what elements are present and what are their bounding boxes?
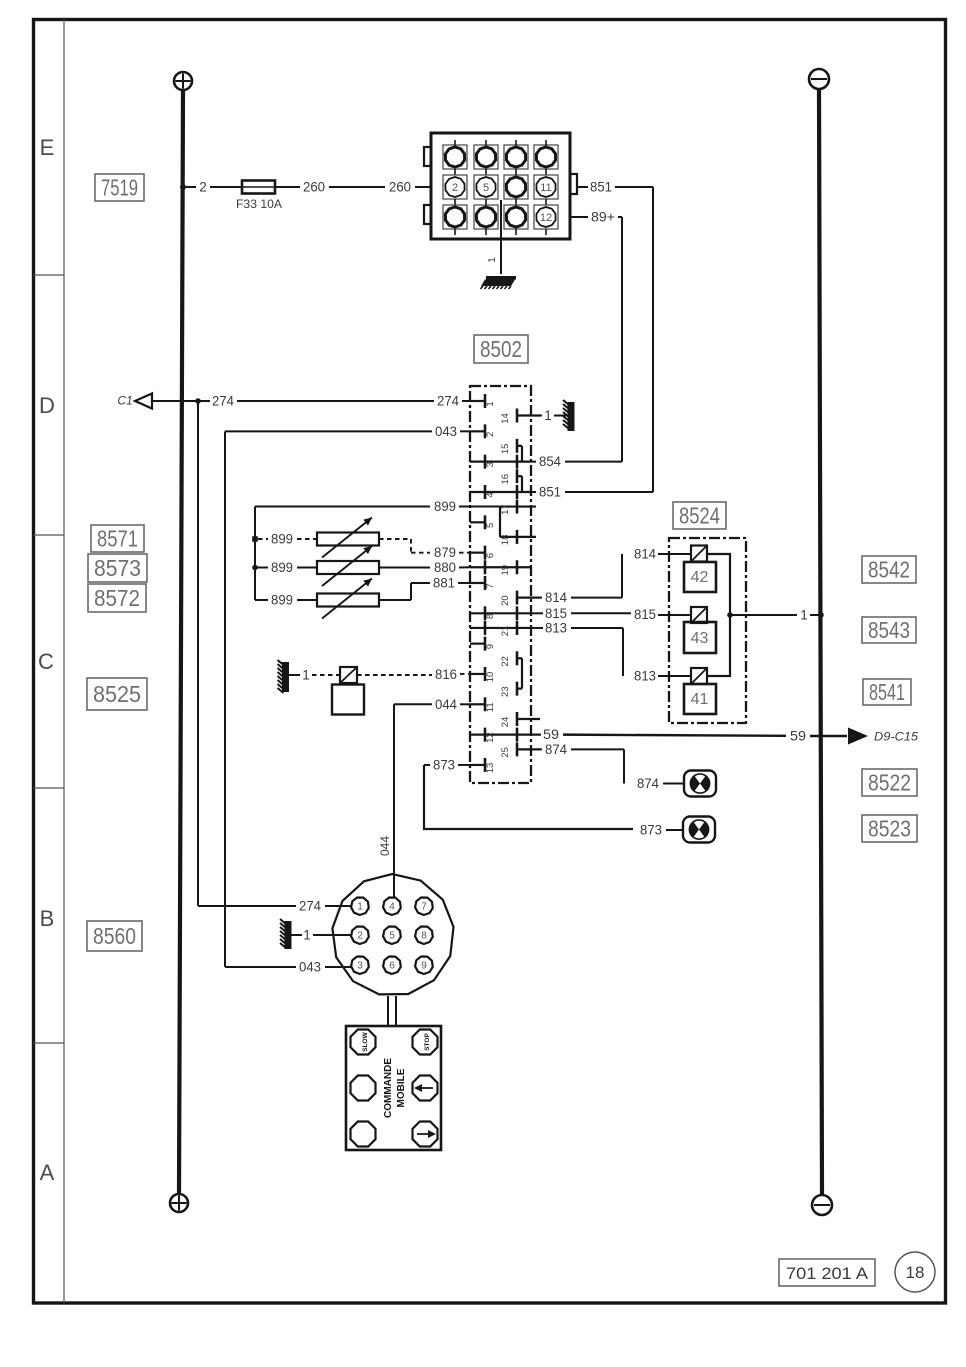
8502 pin 24	[500, 712, 540, 727]
svg-text:18: 18	[906, 1263, 925, 1282]
8502 pin 18	[500, 530, 536, 545]
round connector pin 1	[351, 898, 369, 916]
component box 8573	[88, 554, 147, 582]
svg-text:260: 260	[389, 180, 411, 195]
solenoid body 8525	[332, 685, 364, 715]
connector cavity r3c1	[443, 205, 467, 235]
svg-text:22: 22	[500, 656, 511, 667]
wire 814 into relay 42	[658, 553, 691, 555]
svg-text:E: E	[40, 135, 55, 160]
8502 pin 1	[470, 394, 496, 408]
svg-text:6: 6	[389, 961, 395, 972]
8502 pin 13	[470, 758, 496, 773]
svg-text:8560: 8560	[93, 923, 136, 949]
wire 274 vertical branch down	[197, 401, 199, 906]
round connector body	[332, 874, 453, 994]
wire 816 dashed into pin10	[460, 673, 470, 675]
svg-text:899: 899	[271, 532, 293, 547]
component box 8572	[88, 584, 146, 612]
8502 pin 9	[470, 637, 496, 651]
wire 043 into pin2	[460, 430, 470, 432]
wire 043 final	[325, 966, 351, 968]
svg-text:880: 880	[434, 560, 456, 575]
svg-text:D: D	[39, 393, 55, 418]
svg-text:881: 881	[433, 575, 455, 590]
wire 043 corner	[225, 430, 432, 432]
wire 873 from pin13	[424, 764, 430, 766]
relay 41 coil	[691, 668, 707, 684]
svg-text:4: 4	[389, 902, 395, 913]
round connector pin 4	[383, 898, 401, 916]
8502 pin 5	[470, 515, 496, 529]
relay common junction	[727, 612, 733, 618]
8502 pin 11	[470, 697, 496, 712]
svg-text:1: 1	[485, 401, 496, 406]
svg-text:879: 879	[434, 545, 456, 560]
wire 881 into pin7	[458, 582, 470, 584]
svg-text:3: 3	[485, 462, 496, 467]
wire 814 out pin20	[540, 597, 542, 599]
relay 42 coil	[691, 546, 707, 562]
svg-text:1: 1	[544, 408, 552, 423]
svg-text:1: 1	[303, 928, 311, 943]
svg-text:59: 59	[543, 727, 559, 742]
wire 1 to ground line	[730, 614, 797, 616]
wire 854 to corner	[565, 461, 622, 463]
svg-text:15: 15	[500, 444, 511, 455]
8502 pin 16	[500, 469, 522, 484]
wire 851 to corner	[615, 186, 653, 188]
junction 899 bus b	[252, 536, 258, 542]
svg-text:8523: 8523	[868, 816, 911, 842]
svg-text:23: 23	[500, 686, 511, 697]
svg-text:41: 41	[691, 691, 709, 708]
potentiometer 8572	[317, 594, 379, 607]
8502 pin 23	[500, 682, 522, 697]
wire 899 into pin17	[459, 506, 500, 508]
round connector pin 2	[351, 927, 369, 945]
wire 274 into pin1	[462, 400, 470, 402]
control button mid-left	[351, 1076, 376, 1101]
8502 pin 20	[500, 591, 540, 606]
connector arrow C1	[135, 394, 152, 409]
svg-text:STOP: STOP	[424, 1033, 431, 1051]
ground symbol 8525	[278, 660, 290, 693]
svg-text:2: 2	[485, 432, 496, 437]
svg-text:8542: 8542	[868, 557, 910, 583]
wire 851 vertical drop	[652, 187, 654, 492]
svg-text:851: 851	[590, 180, 612, 195]
component box 8523	[862, 815, 917, 842]
svg-text:6: 6	[485, 553, 496, 558]
connector 8502 outline dash-dot	[470, 386, 531, 783]
round connector pin 5	[383, 927, 401, 945]
svg-text:C1: C1	[117, 394, 132, 408]
junction 274 branch	[195, 398, 201, 404]
svg-text:11: 11	[485, 702, 496, 712]
ground - terminal bottom	[812, 1195, 832, 1215]
svg-text:815: 815	[545, 606, 567, 621]
wire 813 out pin21	[531, 627, 543, 629]
wire to fuse	[210, 186, 242, 188]
connector cavity r1c2	[474, 140, 498, 175]
svg-text:813: 813	[634, 669, 656, 684]
svg-text:B: B	[40, 906, 55, 931]
wire 89+ corner	[618, 216, 622, 218]
8502 pin 4	[470, 485, 531, 499]
wire 899 d segment	[255, 599, 268, 601]
wire 59 out pin12	[531, 734, 541, 736]
round connector pin 7	[415, 898, 433, 916]
svg-text:24: 24	[500, 717, 511, 728]
svg-text:874: 874	[637, 776, 659, 791]
svg-text:044: 044	[378, 836, 392, 856]
control button top-right	[413, 1030, 438, 1055]
svg-text:854: 854	[539, 454, 561, 469]
wire 274 into round pin1	[198, 905, 296, 907]
component box 8522	[862, 769, 917, 796]
wire 880 into pin19 line	[459, 566, 470, 568]
ground stub pin2	[291, 934, 302, 936]
wire 873 down	[424, 765, 633, 829]
svg-text:19: 19	[500, 565, 511, 576]
control box body	[346, 1026, 441, 1150]
svg-text:8525: 8525	[93, 681, 141, 707]
svg-text:8: 8	[421, 931, 427, 942]
potentiometer 8573	[317, 561, 379, 574]
round connector pin 9	[415, 957, 433, 975]
wire 854 out of pin3	[531, 461, 536, 463]
junction on ground line	[818, 612, 824, 618]
svg-text:1: 1	[302, 668, 310, 683]
svg-text:D9-C15: D9-C15	[874, 730, 918, 744]
wire 899 to resistor 2	[297, 567, 317, 569]
round connector pin 3	[351, 957, 369, 975]
svg-text:899: 899	[434, 499, 456, 514]
row tick E/D	[34, 274, 65, 276]
potentiometer 8571	[317, 533, 379, 546]
8502 pin 14	[500, 409, 540, 424]
svg-text:043: 043	[299, 960, 321, 975]
wire 1 from pin14	[536, 415, 542, 417]
connector cavity r2c1	[443, 175, 467, 205]
wire 043 vertical down	[224, 431, 226, 967]
wire 851 out of pin4	[531, 491, 536, 493]
8502 pin 17	[500, 500, 536, 515]
wire 873 into lamp	[666, 829, 684, 831]
wire 881 from resistor	[379, 599, 411, 601]
component box 8525	[87, 678, 147, 710]
svg-text:274: 274	[437, 394, 459, 409]
wire 814 run	[571, 597, 622, 599]
svg-text:7: 7	[485, 583, 496, 588]
connector ground lead pin 5	[487, 200, 501, 274]
wire 873 into pin13	[458, 764, 470, 766]
relay 43 body	[684, 622, 716, 653]
component box 7519	[95, 174, 144, 201]
pin T-bar at connector left	[430, 180, 433, 194]
wire 851 out	[577, 186, 588, 188]
wire 813 run	[571, 627, 623, 629]
8502 pin 7	[470, 576, 496, 590]
svg-text:MOBILE: MOBILE	[396, 1068, 407, 1107]
connector cavity r1c3	[504, 140, 528, 175]
svg-text:20: 20	[500, 595, 511, 606]
svg-text:10: 10	[485, 672, 496, 683]
wire 899 dashed to resistor	[297, 538, 317, 540]
wire 899 top run	[255, 506, 430, 508]
svg-text:7519: 7519	[101, 175, 138, 201]
svg-text:899: 899	[271, 560, 293, 575]
wire 881 run	[411, 582, 430, 584]
8502 bridge pin17 to pin18	[499, 507, 501, 537]
wire 879 dashed from resistor	[379, 538, 411, 540]
svg-text:8: 8	[485, 614, 496, 619]
row tick C/B	[34, 787, 65, 789]
wire 2 segment	[186, 186, 196, 188]
svg-text:8543: 8543	[868, 617, 910, 643]
fuse F33 10A	[242, 181, 275, 194]
wire 1 dashed to solenoid	[312, 674, 340, 676]
component box 8542	[862, 556, 916, 583]
battery + terminal bottom	[170, 1194, 188, 1212]
junction 899 bus c	[252, 565, 258, 571]
svg-text:851: 851	[539, 484, 561, 499]
wire 899 to resistor 3	[297, 599, 317, 601]
wire 874 out pin25	[540, 748, 542, 750]
svg-text:5: 5	[483, 182, 489, 194]
wire 881 corner up	[410, 583, 412, 600]
control button bottom-left	[351, 1122, 376, 1147]
svg-text:12: 12	[485, 732, 496, 743]
8502 pin 10	[470, 667, 496, 682]
ground - vertical wire	[819, 89, 822, 1194]
wire 89+ vertical drop	[621, 217, 623, 462]
svg-text:89+: 89+	[591, 210, 615, 225]
wire 044 into pin11	[460, 703, 470, 705]
svg-text:SLOW: SLOW	[362, 1031, 369, 1051]
component box 8524	[673, 502, 726, 529]
solenoid coil 8525	[340, 667, 357, 683]
svg-text:1: 1	[487, 257, 498, 263]
component box 8502	[474, 335, 528, 363]
svg-text:8524: 8524	[679, 503, 720, 529]
wire fuse to 260	[275, 186, 300, 188]
row-letter column divider	[63, 20, 65, 1304]
relay 41 body	[684, 684, 716, 714]
wire 816 dashed	[357, 674, 432, 676]
8502 pin 3	[470, 455, 531, 469]
wire 899 bus vertical	[254, 507, 256, 600]
svg-text:8541: 8541	[869, 679, 905, 705]
control button mid-right arrow	[413, 1076, 438, 1101]
wire into connector 7519pin	[415, 186, 431, 188]
svg-text:3: 3	[357, 961, 363, 972]
wire 260-260	[329, 186, 385, 188]
svg-text:8502: 8502	[480, 336, 522, 362]
svg-text:814: 814	[634, 547, 656, 562]
8502 pin 19	[470, 560, 531, 575]
svg-text:2: 2	[199, 180, 207, 195]
round connector pin 8	[415, 927, 433, 945]
svg-text:5: 5	[389, 931, 395, 942]
connector cavity r3c2	[474, 205, 498, 235]
wire 59 to arrow	[810, 735, 847, 737]
wire 813 corner down	[622, 628, 624, 676]
drawing number box 701 201 A	[779, 1259, 875, 1286]
wire 274 to 8502	[237, 400, 434, 402]
wire 879 dashed into pin6	[459, 552, 470, 554]
wire 044 corner	[394, 703, 432, 705]
svg-text:59: 59	[790, 729, 806, 744]
wire 813 into relay 41	[658, 675, 691, 677]
connector cavity r1c4	[534, 140, 558, 175]
junction on + line	[180, 184, 186, 190]
lamp 8522	[684, 771, 716, 797]
sheet number circle 18	[895, 1252, 935, 1292]
svg-text:9: 9	[421, 961, 427, 972]
svg-text:13: 13	[485, 763, 496, 774]
control button bottom-right arrow	[413, 1122, 438, 1147]
8502 pin 21	[470, 621, 531, 636]
svg-text:043: 043	[435, 424, 457, 439]
svg-text:899: 899	[271, 593, 293, 608]
connector cavity r2c4	[534, 175, 558, 205]
pin stub 89+	[570, 216, 588, 218]
connector cavity r2c3	[504, 175, 528, 205]
wire 815 run	[571, 612, 631, 614]
wire 851 to corner	[565, 491, 653, 493]
svg-text:1: 1	[357, 902, 363, 913]
svg-text:18: 18	[500, 535, 511, 546]
ground stub	[289, 674, 300, 676]
svg-text:A: A	[40, 1160, 55, 1185]
8502 pin 2	[470, 424, 496, 438]
relay common bus	[707, 554, 730, 676]
svg-text:8573: 8573	[94, 555, 141, 581]
wire 1 to ground	[554, 415, 568, 417]
ground symbol round pin2	[280, 919, 292, 949]
svg-text:815: 815	[634, 607, 656, 622]
wire 899 dashed segment	[258, 538, 268, 540]
ground symbol below connector	[481, 276, 517, 289]
8502 pin 25	[500, 742, 540, 757]
svg-text:21: 21	[500, 626, 511, 637]
control button top-left	[351, 1030, 376, 1055]
connector cavity r3c4	[534, 205, 558, 235]
svg-text:11: 11	[540, 182, 551, 194]
svg-text:274: 274	[212, 394, 234, 409]
svg-text:8522: 8522	[868, 770, 911, 796]
relay 43 coil	[691, 607, 707, 623]
svg-text:044: 044	[435, 697, 457, 712]
row tick D/C	[34, 534, 65, 536]
relay 42 body	[684, 562, 716, 592]
svg-text:7: 7	[421, 902, 427, 913]
svg-text:25: 25	[500, 747, 511, 758]
wire 1 into pin2	[313, 934, 351, 936]
svg-text:2: 2	[357, 931, 363, 942]
wire 274 final	[325, 905, 351, 907]
svg-text:816: 816	[435, 667, 457, 682]
wire 879 dashed corner down	[410, 539, 412, 553]
svg-text:813: 813	[545, 620, 567, 635]
svg-text:F33 10A: F33 10A	[236, 197, 282, 211]
wire 815 out pin8	[531, 612, 543, 614]
component box 8571	[91, 525, 144, 552]
8502 pin 15	[500, 439, 522, 454]
svg-text:1: 1	[800, 608, 808, 623]
svg-text:C: C	[38, 649, 54, 674]
pin T-bar 851 right	[569, 180, 572, 194]
wire 874 into lamp	[663, 783, 684, 785]
wire 880 from resistor	[379, 567, 430, 569]
component box 8560	[87, 921, 142, 951]
wire 815 into relay 43	[658, 614, 691, 616]
svg-text:42: 42	[691, 569, 709, 586]
8502 bridge pin16 to pin4	[521, 476, 523, 492]
connector arrow D9-C15	[848, 728, 868, 745]
wire 874 run	[571, 748, 624, 750]
svg-text:814: 814	[545, 590, 567, 605]
svg-text:17: 17	[500, 504, 511, 515]
svg-text:14: 14	[500, 413, 511, 424]
svg-text:4: 4	[485, 492, 496, 497]
svg-text:8572: 8572	[94, 585, 140, 611]
svg-text:12: 12	[540, 212, 552, 224]
svg-text:874: 874	[545, 742, 567, 757]
relay block 8524 outline	[669, 538, 746, 723]
wire 59 run	[563, 735, 786, 736]
svg-text:9: 9	[485, 644, 496, 649]
svg-text:5: 5	[485, 523, 496, 528]
svg-text:873: 873	[433, 757, 455, 772]
component box 8543	[862, 617, 916, 643]
supply + vertical wire	[179, 90, 183, 1194]
wire 043 into round pin3	[225, 966, 296, 968]
svg-text:8571: 8571	[97, 526, 138, 552]
wire 874 corner down	[623, 749, 625, 783]
row tick B/A	[34, 1042, 65, 1044]
svg-text:274: 274	[299, 899, 321, 914]
8502 bridge pin22 to pin23	[521, 658, 523, 688]
connector cavity r3c3	[504, 205, 528, 235]
svg-text:2: 2	[452, 182, 458, 194]
wire 1 final	[810, 614, 820, 616]
wire 814 corner up	[621, 554, 623, 598]
8502 pin 12	[470, 728, 531, 743]
connector block body	[424, 133, 577, 239]
svg-text:873: 873	[640, 823, 662, 838]
wire 044 vertical down	[393, 704, 395, 897]
battery + terminal top	[174, 72, 192, 90]
wires round connector to control box	[388, 996, 396, 1026]
svg-text:43: 43	[691, 630, 709, 647]
8502 pin 8	[470, 606, 531, 620]
ground - terminal top	[809, 69, 829, 89]
wire 274 from arrow	[152, 400, 210, 402]
svg-text:701 201 A: 701 201 A	[786, 1264, 869, 1283]
svg-text:COMMANDE: COMMANDE	[383, 1058, 394, 1118]
connector cavity r1c1	[443, 140, 467, 175]
wire 879 dashed run	[411, 552, 430, 554]
connector cavity r2c2	[474, 175, 498, 205]
8502 pin 22	[500, 651, 522, 666]
wire 899 c segment	[255, 567, 268, 569]
8502 pin 6	[470, 546, 496, 560]
ground symbol pin14	[563, 400, 575, 431]
lamp 8523	[683, 817, 715, 843]
